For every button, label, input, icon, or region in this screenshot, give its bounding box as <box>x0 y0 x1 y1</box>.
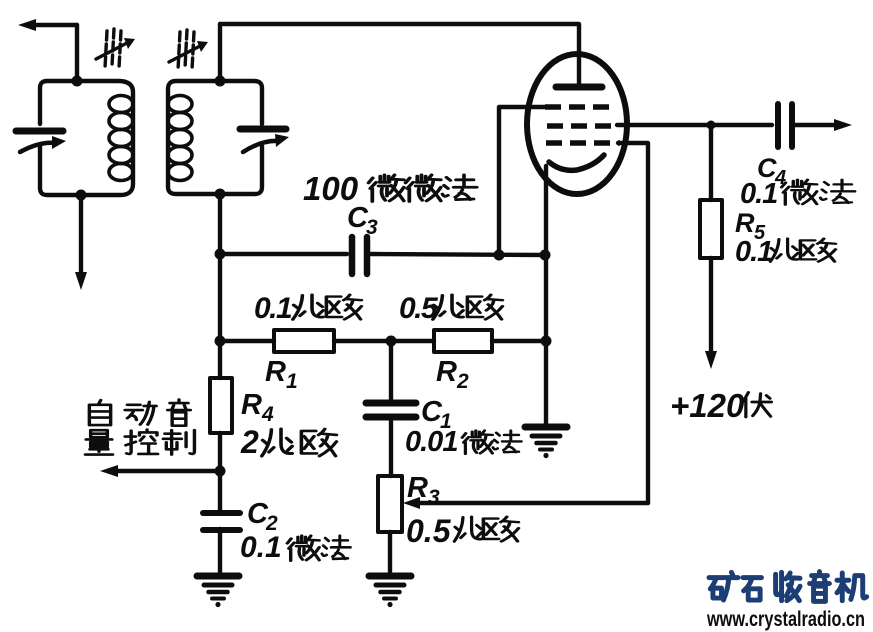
ground (cathode rail) <box>525 427 567 458</box>
capacitor C2 <box>203 513 240 530</box>
antenna arrow (top-left output) <box>18 19 77 31</box>
svg-text:0.1: 0.1 <box>254 292 292 325</box>
wire R4 bottom to C2 <box>218 433 222 512</box>
AVC output arrow <box>100 465 218 477</box>
wire grid2 to output row <box>617 123 772 127</box>
node: grid wire junction on C3 row <box>494 250 505 261</box>
resistor R3 (potentiometer) <box>378 476 402 532</box>
ground (below R3) <box>369 576 411 607</box>
coil L1 (5 loops) <box>109 96 133 181</box>
svg-text:www.crystalradio.cn: www.crystalradio.cn <box>706 608 865 631</box>
label R4 value: 2 兆欧 <box>240 424 337 460</box>
label +120V: +120 伏 <box>670 387 771 424</box>
node: tank1 top junction <box>72 76 83 87</box>
svg-text:2: 2 <box>240 424 259 460</box>
wire C1 to R3 <box>389 417 393 476</box>
label C4 value: 0.1 微法 <box>740 178 855 210</box>
tube U1 plate <box>556 84 602 91</box>
variable capacitor CV2 arrow <box>243 134 289 152</box>
resistor R1 <box>274 330 334 352</box>
node: tank2 bottom junction <box>215 189 226 200</box>
label R5 designator <box>735 208 766 244</box>
wire C3 row right segment <box>371 254 545 255</box>
label AVC line2: 量控制 <box>85 430 194 455</box>
resistor R5 <box>700 200 722 258</box>
watermark: 矿石收音机 <box>709 572 867 602</box>
wire from antenna arrow down to tank1 top <box>75 25 79 81</box>
svg-text:3: 3 <box>366 216 378 239</box>
coil L2 (5 loops) <box>168 96 192 181</box>
wire R2 to cathode rail <box>492 339 546 343</box>
label R5 value: 0.1 兆欧 <box>735 236 836 268</box>
svg-text:R: R <box>436 356 457 388</box>
wire C3 row left segment <box>220 252 347 256</box>
wire grid3 to feedback rail <box>618 143 648 503</box>
node: C3 row left junction <box>215 249 226 260</box>
svg-text:2: 2 <box>456 370 469 393</box>
wire cathode rail down to ground <box>544 256 548 426</box>
wire R1 row: rail to R1 <box>220 339 274 343</box>
trimmer core symbol (L2) <box>169 30 208 70</box>
capacitor C3 <box>352 237 367 274</box>
node: AVC junction <box>215 466 226 477</box>
capacitor C1 <box>366 403 416 417</box>
wire junction down to R5 <box>709 125 713 200</box>
svg-text:0.5: 0.5 <box>406 513 452 549</box>
wire grid1 to C3 row <box>499 107 546 255</box>
tube U1 envelope <box>527 54 627 194</box>
R3 wiper arrow wire from feedback rail <box>403 497 648 509</box>
resistor R4 <box>210 378 232 433</box>
wire middle node down to C1 <box>389 341 393 400</box>
label R2 designator <box>436 356 469 393</box>
label C4 designator <box>757 153 786 189</box>
tank1 loop outline (L1 primary circuit) <box>40 81 133 195</box>
svg-text:4: 4 <box>261 403 274 426</box>
ground (below C2) <box>197 576 239 607</box>
svg-text:3: 3 <box>428 486 440 509</box>
resistor R2 <box>434 330 492 352</box>
node: R1 row left junction <box>215 336 226 347</box>
label C1 value: 0.01 微法 <box>405 426 521 458</box>
wire top rail to tube plate <box>220 24 579 84</box>
node: middle junction (R1/R2/C1) <box>386 336 397 347</box>
svg-text:0.1: 0.1 <box>240 531 282 564</box>
label R3 designator <box>407 472 440 509</box>
tube U1 cathode <box>549 155 604 170</box>
label C1 designator <box>421 396 452 433</box>
label R3 value: 0.5 兆欧 <box>406 513 519 549</box>
wire C2 to ground <box>218 529 222 574</box>
wire R3 to ground <box>388 532 392 574</box>
tank2 loop outline (L2 secondary circuit) <box>168 81 262 194</box>
label R1 value: 0.1 兆欧 <box>254 292 362 325</box>
svg-text:R: R <box>265 356 286 388</box>
svg-text:+120: +120 <box>670 387 745 424</box>
svg-text:R: R <box>407 472 428 504</box>
node: cathode rail junction at R2 <box>541 336 552 347</box>
wire tank2 bottom to C3 row <box>218 194 222 254</box>
svg-text:R: R <box>241 389 262 421</box>
wire left rail C3 row down to R4 <box>218 254 222 378</box>
label R4 designator <box>241 389 274 426</box>
label C2 value: 0.1 微法 <box>240 531 350 564</box>
wire R1 to middle node <box>334 339 434 343</box>
wire cathode lead down to C3 row <box>544 166 548 256</box>
label R1 designator <box>265 356 298 393</box>
label C2 designator <box>247 498 278 535</box>
trimmer core symbol (L1) <box>96 29 135 68</box>
node: tank2 top junction <box>215 76 226 87</box>
wire tank1 bottom down with arrow <box>75 195 87 290</box>
label C3 value: 100 微微法 <box>303 170 477 207</box>
svg-text:1: 1 <box>286 370 298 393</box>
node: tank1 bottom junction <box>76 190 87 201</box>
tube U1 grid 3 (dashed) <box>546 140 620 146</box>
label R2 value: 0.5 兆欧 <box>399 292 503 325</box>
tube U1 grid 1 (dashed) <box>545 104 614 110</box>
svg-text:0.01: 0.01 <box>405 426 457 458</box>
svg-text:0.1: 0.1 <box>735 236 772 268</box>
output arrow after C4 <box>792 119 852 131</box>
capacitor C4 <box>778 104 792 147</box>
label C3 designator <box>347 202 378 239</box>
node: cathode rail junction on C3 row <box>540 250 551 261</box>
svg-text:R: R <box>735 208 755 238</box>
variable capacitor CV1 plate <box>16 128 63 135</box>
variable capacitor CV1 arrow <box>20 136 66 152</box>
wire R5 down to +120V arrow <box>705 258 717 369</box>
svg-text:0.1: 0.1 <box>740 178 777 210</box>
label AVC line1: 自动音 <box>89 400 190 426</box>
node: R5/C4 junction <box>707 121 716 130</box>
wire tank2 top to top rail <box>218 24 222 81</box>
tube U1 grid 2 (dashed) <box>547 123 617 129</box>
variable capacitor CV2 plate <box>240 126 286 133</box>
